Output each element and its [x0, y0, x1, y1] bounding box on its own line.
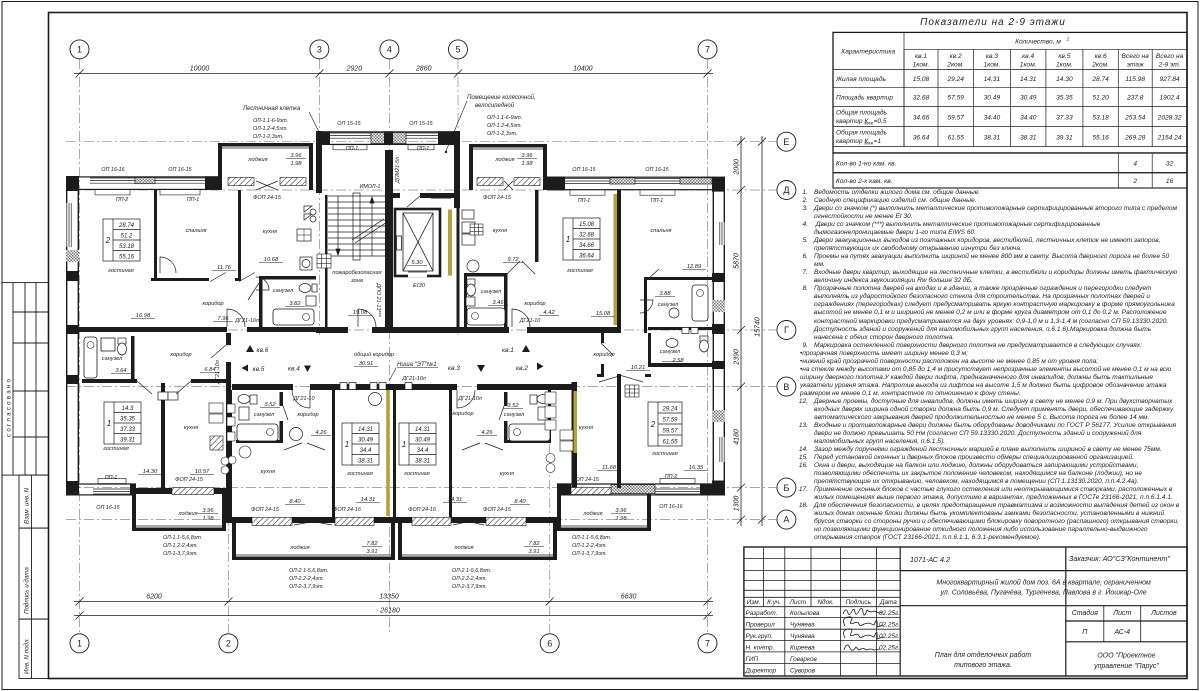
svg-text:2154.24: 2154.24	[1157, 135, 1182, 142]
kitchen vent grids	[209, 224, 639, 474]
top axis bubbles	[70, 40, 717, 59]
corridor top wall	[66, 327, 227, 332]
right loggia walls	[469, 144, 473, 190]
svg-text:39.31: 39.31	[1056, 135, 1073, 142]
center wing partitions	[332, 390, 335, 517]
callout: лестничная клетка	[242, 106, 326, 144]
toilets and sinks	[118, 206, 709, 441]
svg-text:237.8: 237.8	[1126, 95, 1144, 102]
kv6 top-left apt partitions	[154, 190, 157, 281]
loggia glazing thin double lines	[136, 148, 647, 555]
center wing bottom wall	[226, 517, 252, 523]
svg-text:35.35: 35.35	[1056, 95, 1073, 102]
electrical niche strips	[386, 194, 617, 516]
svg-text:14.31: 14.31	[1020, 76, 1037, 83]
door arcs	[137, 257, 659, 450]
core top wall band	[316, 131, 460, 132]
right dimension texts	[734, 159, 762, 511]
svg-text:61.55: 61.55	[947, 135, 964, 142]
svg-text:Показатели на 2-9 этажи: Показатели на 2-9 этажи	[920, 17, 1066, 28]
svg-text:Площадь квартир: Площадь квартир	[836, 94, 893, 102]
left sidebar lower fields	[19, 475, 49, 678]
svg-text:Количество, м: Количество, м	[1015, 39, 1061, 46]
core inner wall right of stairs	[385, 150, 393, 333]
svg-text:Всего на: Всего на	[1122, 53, 1150, 60]
svg-text:Многоквартирный жилой дом поз.: Многоквартирный жилой дом поз. 6А в квар…	[936, 579, 1151, 587]
svg-text:Разработ.: Разработ.	[746, 609, 778, 617]
general notes list	[796, 189, 1181, 542]
svg-text:34.40: 34.40	[1020, 115, 1037, 122]
french door X marks	[256, 181, 513, 525]
svg-text:Копылова: Копылова	[790, 610, 820, 617]
svg-text:Лист: Лист	[1112, 610, 1131, 617]
svg-text:15.08: 15.08	[913, 76, 930, 83]
svg-text:1902.4: 1902.4	[1160, 95, 1181, 102]
svg-text:2ком.: 2ком.	[946, 62, 964, 69]
svg-text:1ком.: 1ком.	[983, 62, 1000, 69]
svg-text:Директор: Директор	[745, 668, 777, 675]
right wall band	[712, 177, 725, 192]
svg-text:=1: =1	[874, 138, 882, 145]
bottom-left loggia	[132, 494, 136, 531]
svg-text:38.31: 38.31	[1020, 135, 1037, 142]
kv2 right vertical apt	[644, 277, 725, 280]
svg-text:1ком.: 1ком.	[1020, 62, 1037, 69]
bottom dimension texts	[146, 594, 636, 615]
svg-text:34.40: 34.40	[984, 115, 1001, 122]
bathtubs	[84, 285, 708, 441]
svg-text:253.54: 253.54	[1124, 115, 1146, 122]
svg-text:Говарков: Говарков	[790, 656, 818, 663]
bottom-right wing wall band	[557, 483, 725, 484]
svg-text:П: П	[1082, 629, 1088, 636]
svg-text:Н. контр.: Н. контр.	[746, 645, 775, 652]
signatures	[843, 608, 883, 650]
svg-text:кв.2: кв.2	[950, 53, 962, 60]
callout: ниша ЭТ	[389, 361, 438, 381]
left loggia walls	[218, 143, 222, 190]
bottom dimension lines	[74, 598, 713, 620]
svg-text:План для отделочных работ: План для отделочных работ	[935, 651, 1032, 659]
top dimension texts	[190, 66, 593, 73]
svg-text:37.33: 37.33	[1056, 115, 1073, 122]
elevator shaft	[395, 209, 440, 276]
svg-text:Кол-во 1-но кам. кв.: Кол-во 1-но кам. кв.	[836, 161, 897, 168]
svg-text:51.20: 51.20	[1092, 95, 1109, 102]
svg-text:Общая площадь: Общая площадь	[836, 109, 888, 117]
svg-text:Суворов: Суворов	[790, 668, 816, 675]
svg-text:02.25г.: 02.25г.	[879, 610, 900, 617]
window type labels	[96, 121, 682, 513]
svg-text:кв.3: кв.3	[986, 53, 998, 60]
svg-text:2: 2	[1066, 37, 1070, 43]
svg-text:Изм.: Изм.	[747, 599, 761, 606]
callout: помещение колясочной	[445, 94, 536, 153]
svg-text:Характеристика: Характеристика	[840, 49, 896, 56]
svg-text:Дата: Дата	[879, 599, 897, 606]
apartment area tables	[103, 218, 682, 465]
svg-text:Проверил: Проверил	[746, 622, 776, 629]
svg-text:Nдок.: Nдок.	[817, 598, 834, 606]
svg-text:36.64: 36.64	[913, 135, 930, 142]
svg-text:30.49: 30.49	[1020, 95, 1037, 102]
svg-text:1071-АС 4.2: 1071-АС 4.2	[910, 555, 950, 564]
svg-text:АС-4: АС-4	[1114, 629, 1131, 636]
svg-text:02.25г.: 02.25г.	[879, 645, 900, 652]
underlined dimension labels	[111, 193, 708, 505]
svg-text:этаж: этаж	[1127, 62, 1144, 69]
svg-text:Подпись: Подпись	[846, 598, 871, 606]
bottom-right loggia	[557, 494, 561, 531]
svg-text:Чуняева: Чуняева	[790, 622, 815, 629]
kv1 partitions	[535, 190, 539, 262]
kv5 bottom-left apt	[131, 336, 135, 380]
svg-text:927.84: 927.84	[1160, 76, 1181, 83]
svg-text:59.57: 59.57	[947, 115, 964, 122]
right dimension lines	[737, 136, 766, 526]
svg-text:ООО "Проектное: ООО "Проектное	[1097, 653, 1155, 660]
center wing side walls	[226, 390, 232, 523]
stair flight	[328, 193, 387, 260]
bottom axis bubbles	[70, 634, 717, 653]
electrical panel boxes on corridor wall	[340, 383, 412, 390]
svg-text:269.28: 269.28	[1124, 135, 1146, 142]
svg-text:28.74: 28.74	[1091, 76, 1109, 83]
svg-text:2ком.: 2ком.	[1091, 62, 1109, 69]
svg-text:Рук.груп.: Рук.груп.	[746, 633, 773, 640]
svg-text:К.уч.: К.уч.	[767, 599, 781, 606]
right axis bubbles	[777, 132, 796, 529]
svg-text:57.59: 57.59	[947, 95, 964, 102]
svg-text:Стадия: Стадия	[1072, 609, 1098, 617]
svg-text:ул. Соловьёва, Пугачёва, Турге: ул. Соловьёва, Пугачёва, Тургенева, Павл…	[940, 588, 1147, 597]
bottom-left wing wall band	[66, 483, 132, 484]
windows thin lines	[90, 133, 700, 494]
left sidebar upper table	[2, 283, 49, 476]
svg-text:2028.32: 2028.32	[1157, 115, 1182, 122]
svg-text:кв.4: кв.4	[1022, 53, 1034, 60]
core bottom wall	[316, 327, 348, 333]
svg-text:кв.6: кв.6	[1095, 53, 1107, 60]
svg-text:ГИП: ГИП	[746, 656, 759, 663]
svg-text:14.31: 14.31	[984, 76, 1001, 83]
svg-text:управление "Парус": управление "Парус"	[1093, 663, 1159, 670]
svg-text:Жилая площадь: Жилая площадь	[835, 75, 886, 83]
top-left wing wall band	[66, 175, 67, 177]
interior walls	[66, 150, 725, 517]
svg-text:2: 2	[1132, 178, 1137, 185]
axis grid dashed lines	[66, 59, 776, 633]
svg-text:53.18: 53.18	[1092, 115, 1109, 122]
svg-text:кв.1: кв.1	[915, 53, 927, 60]
room labels	[102, 157, 681, 551]
svg-text:Всего на: Всего на	[1156, 53, 1184, 60]
svg-text:кв.5: кв.5	[1058, 53, 1070, 60]
left wall band	[66, 176, 67, 495]
title block texts	[745, 598, 900, 675]
svg-text:34.66: 34.66	[913, 115, 930, 122]
svg-text:02.25г.: 02.25г.	[879, 633, 900, 640]
hatched french-window sills	[172, 178, 611, 526]
fraction labels 3.96/1.98 etc	[198, 153, 631, 555]
svg-text:30.49: 30.49	[984, 95, 1001, 102]
big loggias	[232, 523, 236, 560]
svg-text:1ком.: 1ком.	[1056, 62, 1073, 69]
svg-text:115.98: 115.98	[1125, 76, 1145, 83]
svg-text:55.16: 55.16	[1092, 135, 1109, 142]
apartment number markers	[242, 345, 544, 373]
svg-text:29.24: 29.24	[946, 76, 964, 83]
window sill boxes	[95, 145, 695, 484]
svg-text:Общая площадь: Общая площадь	[836, 129, 888, 137]
top dimension line	[74, 70, 713, 78]
svg-text:=0.5: =0.5	[874, 118, 887, 125]
svg-text:16: 16	[1166, 178, 1174, 185]
svg-text:14.30: 14.30	[1056, 76, 1073, 83]
loggia floor level texts bottom	[163, 535, 611, 590]
top-right wing wall band	[547, 177, 712, 178]
svg-text:Лист: Лист	[789, 599, 807, 606]
svg-text:4: 4	[1133, 161, 1137, 168]
svg-text:Киреева: Киреева	[790, 645, 815, 652]
svg-text:Листов: Листов	[1150, 610, 1177, 617]
svg-text:38.31: 38.31	[984, 135, 1001, 142]
svg-text:типового этажа.: типового этажа.	[954, 662, 1012, 669]
svg-text:Заказчик: АО"СЗ"Континент": Заказчик: АО"СЗ"Континент"	[1069, 554, 1170, 563]
svg-text:32.68: 32.68	[913, 95, 930, 102]
svg-text:Кол-во 2-х кам. кв.: Кол-во 2-х кам. кв.	[836, 178, 893, 185]
title block grid	[744, 547, 1187, 676]
corridor bottom wall	[82, 379, 137, 383]
svg-text:2-9 эт.: 2-9 эт.	[1158, 62, 1181, 69]
svg-text:Чуняева: Чуняева	[790, 633, 815, 640]
indicators table text	[840, 37, 1184, 69]
right wall windows	[66, 203, 725, 462]
svg-text:32: 32	[1166, 161, 1174, 168]
indicators table grid	[833, 32, 1187, 188]
svg-text:1ком.: 1ком.	[913, 62, 930, 69]
exterior walls	[66, 131, 725, 560]
